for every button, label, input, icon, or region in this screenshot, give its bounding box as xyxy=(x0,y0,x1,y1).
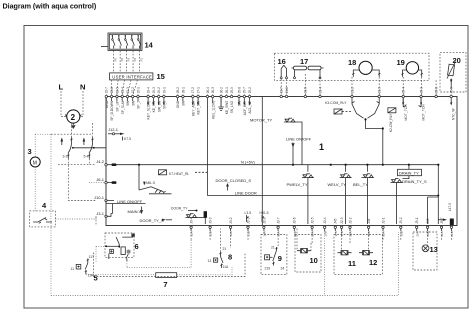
svg-text:MOT_TCH: MOT_TCH xyxy=(421,104,425,121)
svg-text:J3-2: J3-2 xyxy=(229,217,233,223)
svg-text:ACL_NE: ACL_NE xyxy=(248,100,252,114)
dark connector block above bottom edge xyxy=(204,211,207,218)
svg-text:1: 1 xyxy=(319,142,324,152)
NTC sensor 20 xyxy=(440,52,466,95)
right side verticals in board xyxy=(437,165,439,224)
triac BEL_TY xyxy=(353,165,373,224)
svg-text:J2-3: J2-3 xyxy=(340,217,344,223)
svg-text:3-2: 3-2 xyxy=(63,155,68,159)
svg-text:6: 6 xyxy=(135,242,139,251)
wire: left enclosure drop xyxy=(50,134,52,295)
svg-text:K7.5: K7.5 xyxy=(124,137,131,141)
indicator lamp 13 xyxy=(422,245,429,252)
svg-text:3: 3 xyxy=(28,147,32,156)
svg-text:KEY_SW: KEY_SW xyxy=(197,100,201,115)
svg-text:DOOR_CLOSED_S: DOOR_CLOSED_S xyxy=(216,178,252,183)
wires 8 up to pins xyxy=(221,229,231,253)
svg-text:L3.5: L3.5 xyxy=(245,211,252,215)
svg-text:7: 7 xyxy=(163,280,167,289)
svg-text:J2-7: J2-7 xyxy=(277,217,281,223)
svg-text:J5-8: J5-8 xyxy=(237,87,241,93)
board bottom edge connector pins J2/J3 xyxy=(190,217,455,236)
aqua switch 4 xyxy=(30,201,96,227)
K7-HEAT_RL relay xyxy=(159,170,208,176)
svg-text:13: 13 xyxy=(430,245,438,254)
svg-text:MAIN.V: MAIN.V xyxy=(128,209,142,214)
door lock 6 xyxy=(105,233,139,261)
wires 14 to 15 xyxy=(114,51,144,73)
svg-text:J2-9: J2-9 xyxy=(246,217,250,223)
motor 18 xyxy=(348,58,380,77)
svg-text:21: 21 xyxy=(223,247,227,251)
K3 relay contacts (to motor 18) xyxy=(352,98,384,165)
svg-text:J5-7: J5-7 xyxy=(243,87,247,93)
motor 3 xyxy=(28,134,52,211)
svg-text:J12-1: J12-1 xyxy=(108,127,119,132)
svg-text:J8-1: J8-1 xyxy=(181,87,185,93)
svg-text:KE_SW: KE_SW xyxy=(152,100,156,112)
svg-text:19B: 19B xyxy=(399,231,403,236)
svg-text:GND: GND xyxy=(105,100,109,108)
svg-text:J2-8: J2-8 xyxy=(262,217,266,223)
ground xyxy=(220,98,222,107)
svg-text:ACF_RLY: ACF_RLY xyxy=(243,100,247,115)
wire 7 to 8 xyxy=(177,267,232,275)
svg-text:J1-3: J1-3 xyxy=(378,87,382,93)
svg-text:12A: 12A xyxy=(190,231,194,236)
wire L down xyxy=(61,91,67,117)
wire arrows below bus xyxy=(61,139,63,146)
keypad switch bank 14 xyxy=(101,33,154,51)
triac WELV_TY xyxy=(328,165,352,224)
svg-text:J6-2: J6-2 xyxy=(220,87,224,93)
coupling wire between switches to board xyxy=(73,147,106,149)
wires 15 to board xyxy=(112,80,138,95)
ABL.S thermostat xyxy=(139,165,172,194)
svg-text:KE_SW2: KE_SW2 xyxy=(225,101,229,115)
svg-text:J8-2: J8-2 xyxy=(176,87,180,93)
svg-text:H81.5: H81.5 xyxy=(260,211,269,215)
svg-text:219: 219 xyxy=(265,267,271,271)
svg-text:P5: P5 xyxy=(114,58,118,62)
svg-text:15A: 15A xyxy=(277,231,281,236)
svg-text:J6-1: J6-1 xyxy=(225,87,229,93)
svg-text:N (+5V): N (+5V) xyxy=(241,160,256,165)
svg-text:21: 21 xyxy=(271,246,275,250)
svg-text:20: 20 xyxy=(453,56,461,65)
svg-text:J3-4: J3-4 xyxy=(190,217,194,223)
USER INTERFACE board 15 xyxy=(110,72,165,81)
svg-text:J2-2: J2-2 xyxy=(348,217,352,223)
dashed harness box around 5-8 xyxy=(93,253,245,277)
wires into 6 xyxy=(96,201,106,226)
svg-text:ABL.S: ABL.S xyxy=(146,181,156,185)
svg-text:J7-1: J7-1 xyxy=(197,87,201,93)
N (+5V) bus xyxy=(113,160,439,166)
left edge pins J4-2 J6-1 J10-1 J3-1 xyxy=(89,159,146,217)
mains terminals L and N xyxy=(59,83,86,92)
svg-text:J6-3: J6-3 xyxy=(211,87,215,93)
thermostat 8 xyxy=(208,247,233,269)
svg-text:11T: 11T xyxy=(89,255,95,259)
svg-text:17: 17 xyxy=(300,57,308,66)
svg-text:J4-2: J4-2 xyxy=(96,159,105,164)
svg-text:KEL_1(15V): KEL_1(15V) xyxy=(211,101,215,119)
svg-text:16: 16 xyxy=(278,57,286,66)
svg-text:J1-7: J1-7 xyxy=(280,87,284,93)
svg-text:NTC_W: NTC_W xyxy=(451,108,455,121)
main control board outline U1 xyxy=(106,97,457,226)
MOTOR_TY triac xyxy=(250,118,302,165)
svg-text:J3-1: J3-1 xyxy=(96,211,105,216)
motor/pump 19 xyxy=(397,58,423,77)
svg-text:J5-2: J5-2 xyxy=(399,217,403,223)
wire: pin drop to enclosure xyxy=(324,229,326,296)
svg-text:11: 11 xyxy=(71,267,75,271)
svg-text:WELV_TY: WELV_TY xyxy=(328,182,347,187)
svg-text:J2-7: J2-7 xyxy=(105,87,109,93)
switch S2 (neutral) xyxy=(84,138,94,159)
svg-text:18B: 18B xyxy=(367,231,371,236)
dashed box 11+12 xyxy=(334,235,382,275)
svg-text:J9-4: J9-4 xyxy=(147,87,151,93)
top pin signal name labels (rotated) xyxy=(105,98,456,132)
svg-text:J5-2: J5-2 xyxy=(248,87,252,93)
svg-text:J2-5: J2-5 xyxy=(311,217,315,223)
svg-text:DOOR_TY_S: DOOR_TY_S xyxy=(140,218,165,223)
svg-text:J1-5: J1-5 xyxy=(304,87,308,93)
svg-text:2: 2 xyxy=(71,113,76,122)
svg-text:LINE ON/OFF: LINE ON/OFF xyxy=(286,137,312,142)
wires 16-19 down to board pins xyxy=(281,74,436,95)
svg-text:13B: 13B xyxy=(247,231,251,236)
svg-text:21B: 21B xyxy=(450,231,454,236)
LINE ON/OFF (left, J10-1) xyxy=(106,199,143,204)
switch S1 (line) xyxy=(63,138,73,159)
svg-text:KEY_ALM: KEY_ALM xyxy=(191,101,195,116)
wire 5 to 7 xyxy=(86,273,156,275)
svg-text:P1: P1 xyxy=(140,58,144,62)
svg-text:K2-CW_RLY: K2-CW_RLY xyxy=(389,113,393,132)
svg-text:J5-1: J5-1 xyxy=(415,217,419,223)
svg-text:J3-3: J3-3 xyxy=(209,217,213,223)
svg-text:SW_LN: SW_LN xyxy=(157,100,161,112)
svg-text:SP_D.DOWN: SP_D.DOWN xyxy=(110,100,114,121)
svg-text:J10-1: J10-1 xyxy=(94,195,105,200)
svg-text:SW: SW xyxy=(238,100,242,106)
svg-text:Diagram (with aqua control): Diagram (with aqua control) xyxy=(3,2,97,11)
svg-text:DRAIN_TY_S: DRAIN_TY_S xyxy=(402,179,427,184)
dashed box 10 xyxy=(295,235,321,273)
svg-text:L: L xyxy=(59,83,64,92)
svg-text:18A: 18A xyxy=(349,231,353,236)
K3-COM_RLY relay xyxy=(325,101,352,114)
svg-text:15: 15 xyxy=(157,72,165,81)
svg-text:J2-4: J2-4 xyxy=(323,217,327,223)
svg-text:14: 14 xyxy=(145,41,154,50)
svg-text:9: 9 xyxy=(278,254,282,263)
svg-text:P2: P2 xyxy=(133,58,137,62)
svg-text:17B: 17B xyxy=(340,231,344,236)
svg-text:DOOR_TY: DOOR_TY xyxy=(171,207,188,211)
interference filter 16 xyxy=(278,57,288,79)
svg-text:J9-1: J9-1 xyxy=(162,87,166,93)
svg-text:J6-4: J6-4 xyxy=(206,87,210,93)
pressure switch 5 xyxy=(71,255,98,283)
svg-text:SP_SUM: SP_SUM xyxy=(121,101,125,115)
dashed box 13 xyxy=(413,232,438,270)
triac PWELV_TY xyxy=(287,165,314,224)
large dotted enclosure (tub harness) xyxy=(51,232,398,296)
svg-text:17A: 17A xyxy=(334,231,338,236)
pressure switch 9 xyxy=(265,255,270,260)
svg-text:J1-2: J1-2 xyxy=(350,87,354,93)
svg-text:LINE DOOR: LINE DOOR xyxy=(235,190,257,195)
svg-text:J9-2: J9-2 xyxy=(157,87,161,93)
triac DRAIN_TY xyxy=(391,165,428,224)
svg-text:KEY_S(15V): KEY_S(15V) xyxy=(147,101,151,120)
wire: S1 down xyxy=(68,159,96,201)
wire: vertical drops inside board from top pins xyxy=(206,98,208,196)
svg-text:P3: P3 xyxy=(127,58,131,62)
svg-text:J2-6: J2-6 xyxy=(110,87,114,93)
svg-text:USER INTERFACE: USER INTERFACE xyxy=(112,74,152,79)
svg-text:J1-4: J1-4 xyxy=(318,87,322,93)
svg-text:12B: 12B xyxy=(209,231,213,236)
DOOR_TY_S arrow label xyxy=(140,218,173,223)
svg-text:SP_2: SP_2 xyxy=(137,101,141,109)
svg-text:J9-3: J9-3 xyxy=(152,87,156,93)
svg-text:N: N xyxy=(80,83,85,92)
svg-text:K3-COM_RLY: K3-COM_RLY xyxy=(325,101,347,105)
rinse valve 12 xyxy=(359,252,373,254)
svg-text:SP_UP: SP_UP xyxy=(116,100,120,112)
dashed harness box around 16-19 xyxy=(274,53,429,80)
svg-text:M: M xyxy=(33,160,37,166)
board top edge connector pins J12/J1/J5 xyxy=(105,87,454,98)
MAIN.V arrow xyxy=(128,207,143,215)
wire N down xyxy=(80,91,83,117)
svg-text:24: 24 xyxy=(281,267,285,271)
svg-text:J2-6: J2-6 xyxy=(293,217,297,223)
svg-text:L47.5: L47.5 xyxy=(448,203,452,211)
svg-text:12: 12 xyxy=(369,258,377,267)
wire: S2 to J4-2 xyxy=(58,159,96,165)
J12-1 internal connector xyxy=(108,127,131,141)
svg-text:11: 11 xyxy=(348,259,356,268)
svg-text:PWELV_TY: PWELV_TY xyxy=(287,182,308,187)
svg-text:16A: 16A xyxy=(311,231,315,236)
svg-text:BEL_TY: BEL_TY xyxy=(353,182,368,187)
svg-text:K7-HEAT_RL: K7-HEAT_RL xyxy=(169,172,189,176)
LINE DOOR bus xyxy=(207,190,438,195)
svg-text:J45: J45 xyxy=(334,218,338,223)
fill valve 10 xyxy=(297,250,311,252)
K2-CW_RLY relay xyxy=(388,98,421,113)
svg-text:5: 5 xyxy=(94,274,98,283)
svg-text:21A: 21A xyxy=(440,231,444,236)
DOOR_TY triac xyxy=(171,207,206,218)
svg-text:13A: 13A xyxy=(229,231,233,236)
svg-text:18: 18 xyxy=(348,58,356,67)
svg-text:5-4: 5-4 xyxy=(84,155,89,159)
svg-text:J5-9: J5-9 xyxy=(230,87,234,93)
svg-text:SN_LN2: SN_LN2 xyxy=(230,101,234,114)
svg-text:MOTOR_TY: MOTOR_TY xyxy=(250,118,272,123)
suppressor 2 xyxy=(65,110,81,129)
dashed box 9 xyxy=(261,235,287,275)
filter choke 17 xyxy=(292,57,324,79)
svg-text:11A: 11A xyxy=(223,265,230,269)
svg-text:J5-4: J5-4 xyxy=(402,87,406,93)
svg-text:8: 8 xyxy=(228,253,232,262)
svg-text:J7-2: J7-2 xyxy=(191,87,195,93)
wash valve 11 xyxy=(338,252,352,254)
svg-text:10: 10 xyxy=(310,256,318,265)
svg-text:J2-4: J2-4 xyxy=(121,87,125,93)
DOOR_CLOSED_S label xyxy=(216,178,252,191)
LINE ON/OFF (center) xyxy=(286,137,312,165)
svg-text:DRAIN_TY: DRAIN_TY xyxy=(399,171,419,176)
heater 7 xyxy=(156,273,177,289)
svg-text:SN_1: SN_1 xyxy=(163,101,167,109)
svg-text:19: 19 xyxy=(397,58,405,67)
svg-text:13: 13 xyxy=(208,259,212,263)
svg-text:J2-1: J2-1 xyxy=(381,217,385,223)
svg-text:J6-1: J6-1 xyxy=(96,177,105,182)
svg-text:GND: GND xyxy=(176,100,180,108)
svg-text:P4: P4 xyxy=(120,58,124,62)
horizontal dashed bus y=134 xyxy=(51,133,93,135)
svg-text:J1-6: J1-6 xyxy=(285,87,289,93)
svg-text:J2-1: J2-1 xyxy=(136,87,140,93)
svg-text:16B: 16B xyxy=(323,231,327,236)
svg-text:J5-6: J5-6 xyxy=(435,87,439,93)
svg-text:14A: 14A xyxy=(263,231,267,236)
right pins drop wires xyxy=(442,229,452,241)
wires from 2 down to switch bus xyxy=(72,123,93,138)
